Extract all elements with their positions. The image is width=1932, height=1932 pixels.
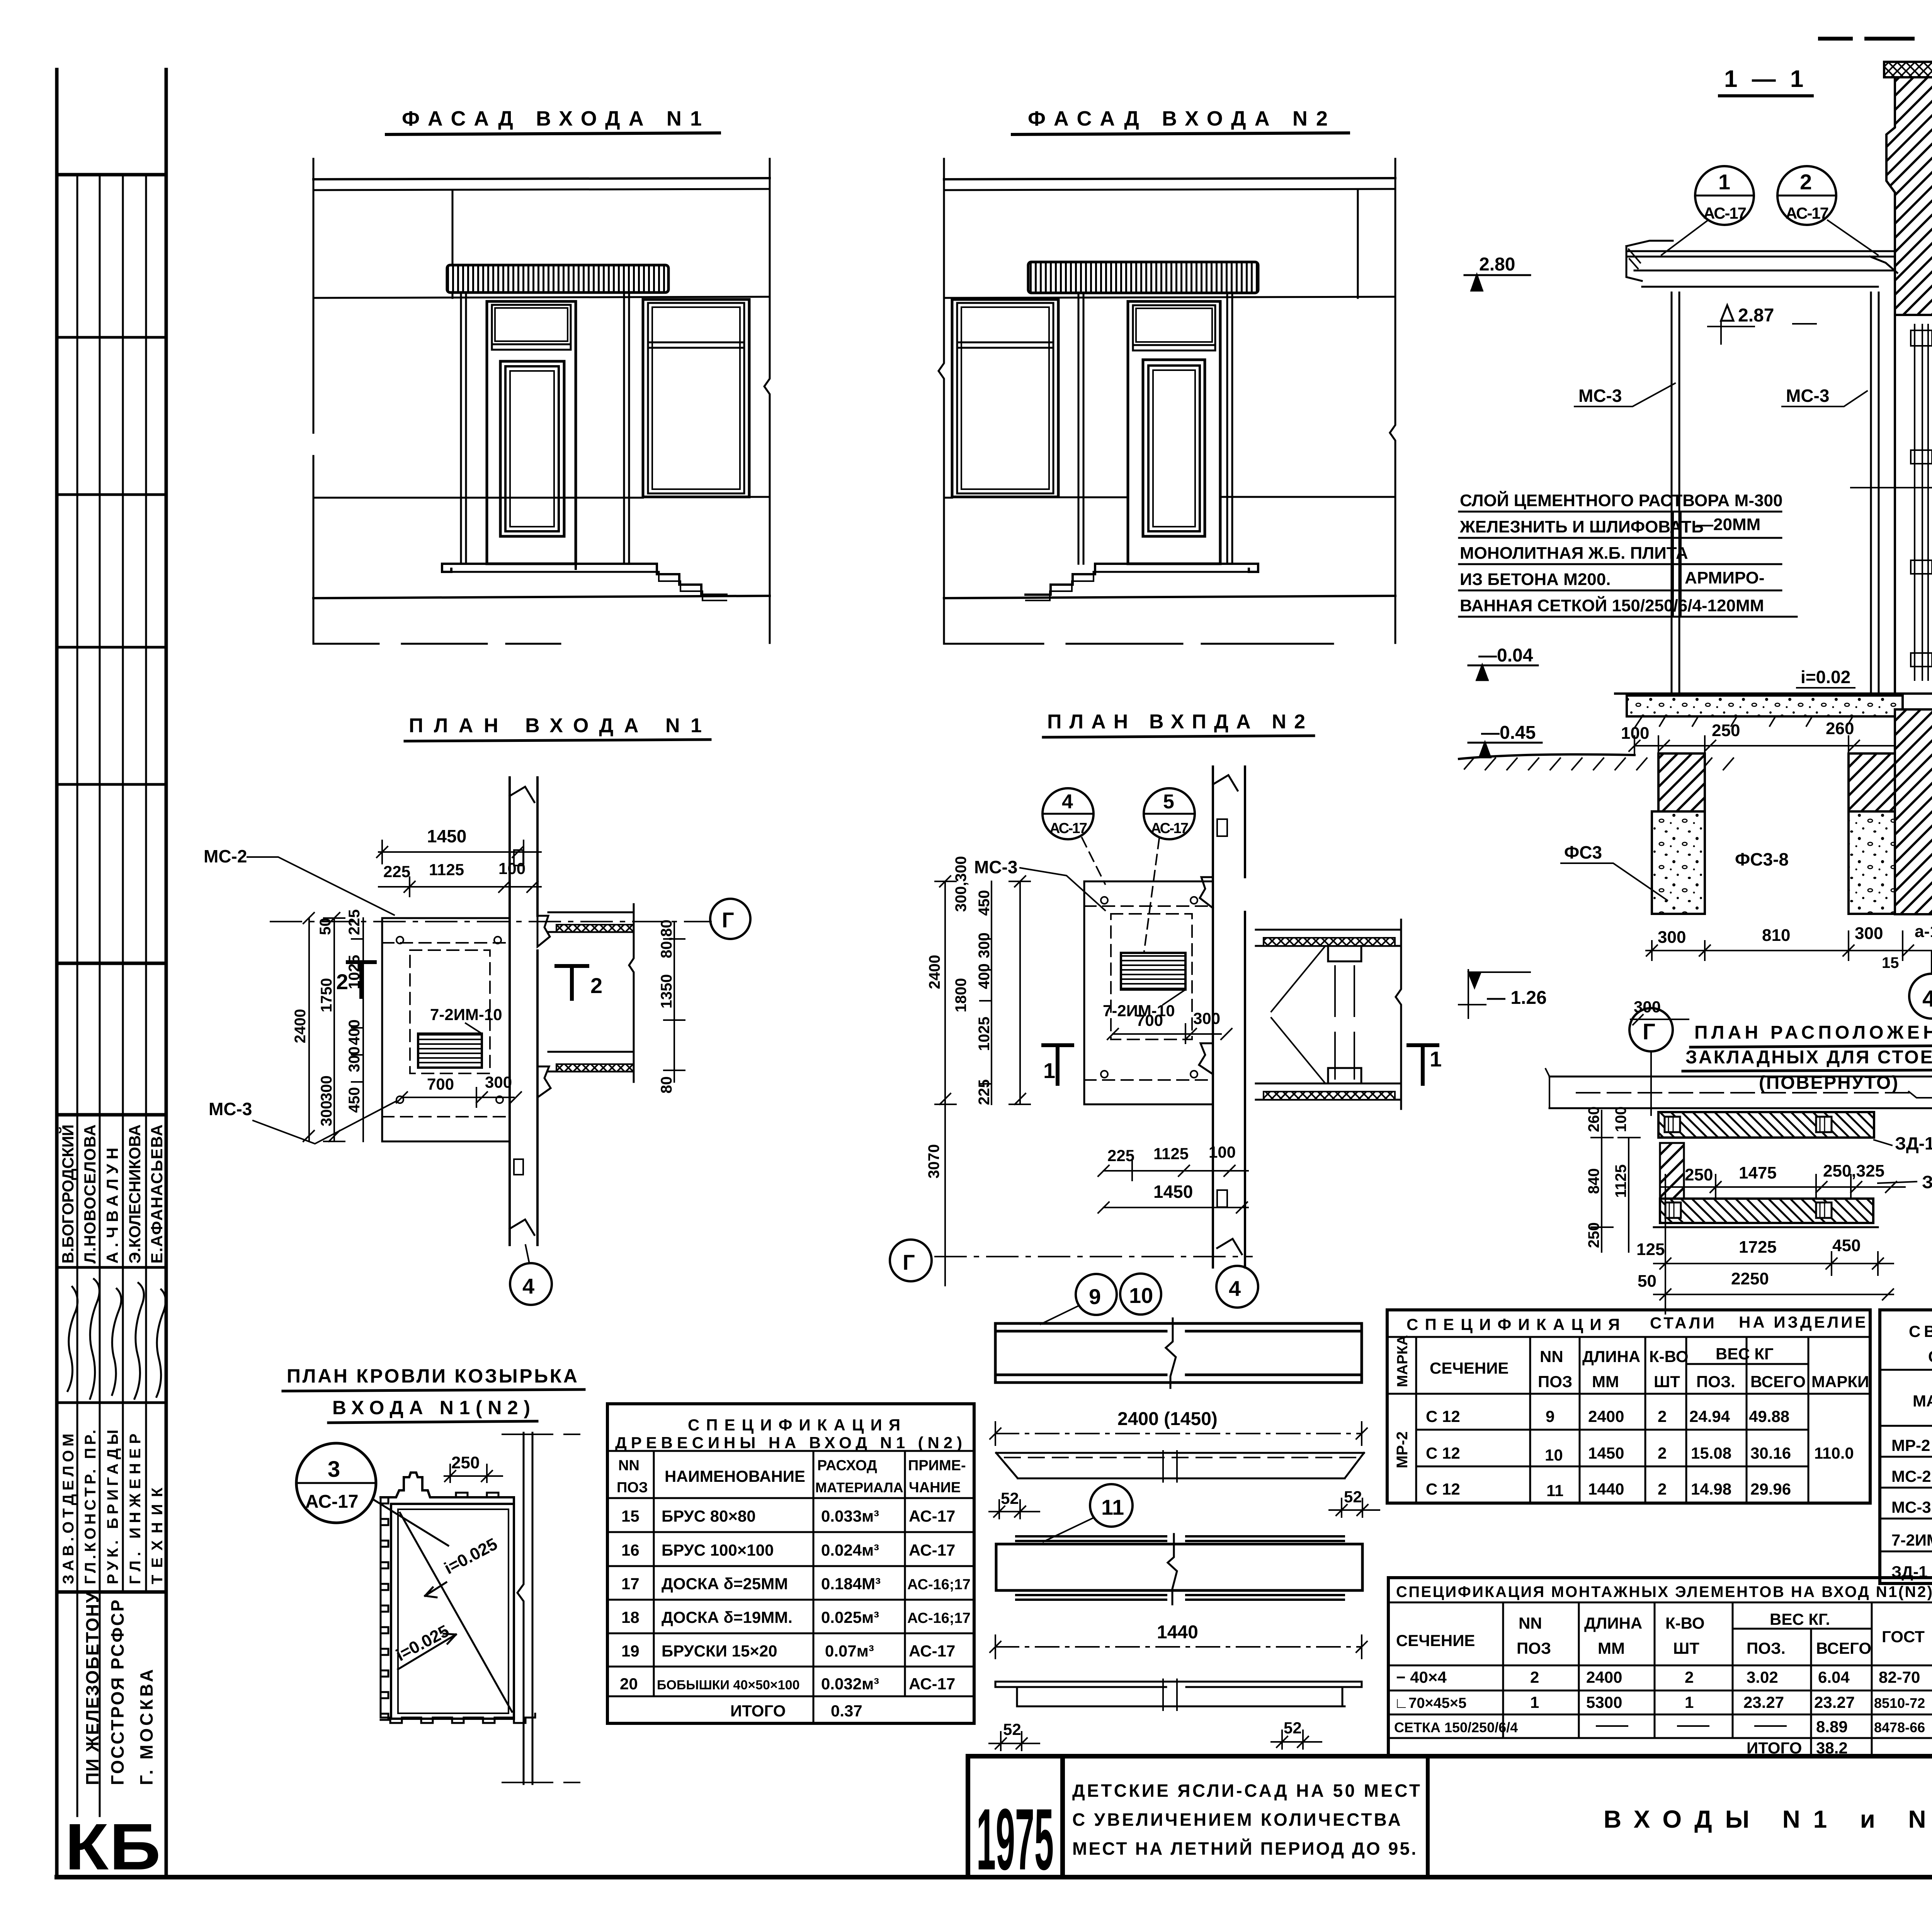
svg-text:0.184М³: 0.184М³ (821, 1575, 881, 1593)
section 1-1 foundation block left (stippled) (1652, 811, 1705, 914)
svg-text:ПИ ЖЕЛЕЗОБЕТОНУ: ПИ ЖЕЛЕЗОБЕТОНУ (82, 1592, 102, 1785)
plan N2 left dimension chains (1009, 876, 1030, 1104)
svg-text:2: 2 (1658, 1444, 1667, 1462)
svg-text:АС-17: АС-17 (1703, 204, 1747, 222)
plan N1 room walls right (548, 912, 634, 932)
svg-text:2400 (1450): 2400 (1450) (1117, 1409, 1218, 1429)
facade N1 transom window (492, 305, 571, 344)
beam item circle 11 (1090, 1484, 1133, 1527)
facade N1 steps (657, 564, 726, 595)
fascia plank (trapezoid) (996, 1453, 1364, 1478)
svg-text:9: 9 (1089, 1284, 1101, 1309)
svg-text:МС-3: МС-3 (1891, 1498, 1931, 1516)
section circle 4 (1909, 974, 1932, 1019)
summary steel spec table (1880, 1310, 1932, 1583)
plan N2 embedded panel 7-2IM-10 (1121, 953, 1185, 990)
svg-text:10: 10 (1545, 1446, 1563, 1464)
svg-text:1: 1 (1430, 1047, 1442, 1071)
svg-text:СВОДНАЯ СПЕЦИФИКАЦИЯ: СВОДНАЯ СПЕЦИФИКАЦИЯ (1909, 1322, 1932, 1340)
svg-text:БОБЫШКИ 40×50×100: БОБЫШКИ 40×50×100 (657, 1678, 799, 1692)
title block top line (968, 1754, 1932, 1759)
svg-text:4: 4 (522, 1274, 534, 1298)
svg-text:2: 2 (1685, 1668, 1694, 1686)
svg-text:ПЛАН РАСПОЛОЖЕНИЯ: ПЛАН РАСПОЛОЖЕНИЯ (1694, 1022, 1932, 1043)
svg-text:ЗАКЛАДНЫХ ДЛЯ СТОЕК ВХОДА N1: ЗАКЛАДНЫХ ДЛЯ СТОЕК ВХОДА N1 (1685, 1047, 1932, 1068)
svg-text:МР-2: МР-2 (1394, 1431, 1411, 1468)
plan N1 right vertical dims (664, 922, 685, 1082)
svg-text:ЧАНИЕ: ЧАНИЕ (909, 1480, 961, 1496)
svg-text:3.02: 3.02 (1747, 1668, 1778, 1686)
svg-text:700: 700 (1136, 1011, 1163, 1029)
axis circle Г (710, 899, 750, 939)
detail circle 3/AC-17 (296, 1443, 376, 1523)
svg-text:—0.45: —0.45 (1481, 723, 1536, 743)
svg-text:100: 100 (498, 859, 526, 878)
bottom plank elevation (995, 1682, 1362, 1706)
svg-text:МАРКА: МАРКА (1913, 1392, 1932, 1410)
svg-text:СЕЧЕНИЕ: СЕЧЕНИЕ (1396, 1631, 1475, 1650)
svg-text:8510-72: 8510-72 (1874, 1695, 1925, 1711)
svg-text:4: 4 (1922, 986, 1932, 1012)
svg-text:АС-17: АС-17 (1786, 204, 1829, 222)
svg-text:РУК. БРИГАДЫ: РУК. БРИГАДЫ (104, 1430, 121, 1584)
svg-text:ДЕТСКИЕ ЯСЛИ-САД НА 50 МЕСТ: ДЕТСКИЕ ЯСЛИ-САД НА 50 МЕСТ (1072, 1781, 1420, 1801)
svg-text:1 — 1: 1 — 1 (1724, 66, 1807, 92)
svg-text:—20ММ: —20ММ (1696, 515, 1760, 534)
svg-text:ВАННАЯ СЕТКОЙ 150/250/6/4-120М: ВАННАЯ СЕТКОЙ 150/250/6/4-120ММ (1460, 595, 1764, 615)
facade N2 lower wall line (944, 497, 1395, 498)
section 1-1 canopy post left (1672, 293, 1679, 696)
svg-text:8.89: 8.89 (1816, 1718, 1848, 1736)
svg-text:2: 2 (1658, 1407, 1667, 1425)
svg-text:1125: 1125 (1612, 1164, 1629, 1198)
svg-text:ВСЕГО: ВСЕГО (1750, 1372, 1806, 1391)
svg-text:80,80: 80,80 (658, 920, 675, 958)
svg-text:49.88: 49.88 (1749, 1407, 1789, 1425)
plan N2 wall jogs (1199, 877, 1213, 1074)
svg-text:250: 250 (451, 1453, 480, 1472)
svg-text:—0.04: —0.04 (1478, 645, 1533, 666)
svg-text:ДОСКА δ=19ММ.: ДОСКА δ=19ММ. (662, 1608, 793, 1626)
svg-text:АС-17: АС-17 (305, 1492, 359, 1512)
svg-text:30.16: 30.16 (1750, 1444, 1791, 1462)
facade N2 door leaf (1143, 360, 1205, 536)
facade N1 canopy (corrugated) (447, 265, 668, 293)
svg-text:100: 100 (1209, 1143, 1236, 1161)
svg-text:400: 400 (976, 963, 993, 989)
roof plan diagonal with slope labels (400, 1513, 512, 1712)
detail circle 2/AC-17 (1777, 166, 1836, 225)
svg-text:ГОСТ: ГОСТ (1882, 1628, 1925, 1646)
svg-text:260: 260 (1826, 719, 1854, 738)
svg-text:0.033м³: 0.033м³ (821, 1507, 879, 1525)
svg-text:АС-17: АС-17 (909, 1541, 955, 1559)
year box 1975 (968, 1756, 1063, 1877)
svg-text:1: 1 (1685, 1693, 1694, 1711)
svg-text:1440: 1440 (1588, 1480, 1624, 1498)
facade N2 door mullion (1133, 345, 1215, 350)
svg-text:1350: 1350 (658, 974, 675, 1009)
svg-text:300: 300 (318, 1075, 335, 1101)
section mark 2 right (556, 966, 587, 999)
section 1-1 foundation pier right (hatched) (1849, 753, 1903, 811)
svg-text:300: 300 (1193, 1009, 1220, 1027)
svg-text:700: 700 (427, 1075, 454, 1093)
svg-text:2250: 2250 (1731, 1269, 1769, 1288)
svg-text:ПОЗ.: ПОЗ. (1696, 1372, 1735, 1391)
svg-text:БРУС 80×80: БРУС 80×80 (662, 1507, 756, 1525)
svg-text:СЕТКА 150/250/6/4: СЕТКА 150/250/6/4 (1394, 1719, 1518, 1735)
svg-text:ЗД-1: ЗД-1 (1895, 1133, 1932, 1153)
facade N1 door frame (487, 301, 576, 564)
svg-text:СПЕЦИФИКАЦИЯ: СПЕЦИФИКАЦИЯ (688, 1416, 904, 1434)
svg-text:С 12: С 12 (1426, 1480, 1460, 1498)
svg-text:300: 300 (1658, 928, 1686, 947)
project description box (1426, 1756, 1430, 1877)
facade N1 wall joint (452, 190, 454, 298)
facade N2 lower datum line (944, 643, 1333, 645)
embedded bar left vertical (hatched) (1660, 1143, 1684, 1199)
svg-text:300,300: 300,300 (952, 856, 969, 912)
section 1-1 foundation pier left (hatched) (1658, 753, 1705, 811)
svg-text:ФС3: ФС3 (1564, 842, 1602, 862)
cement layer note text (1459, 490, 1782, 615)
svg-text:4: 4 (1062, 791, 1073, 813)
svg-text:20: 20 (620, 1675, 638, 1693)
svg-text:ШТ: ШТ (1654, 1372, 1680, 1391)
facade N1 lower wall line (313, 497, 770, 498)
section 1-1 wall column above canopy (hatched) (1886, 77, 1932, 315)
svg-text:19: 19 (621, 1642, 639, 1660)
svg-text:НА ИЗДЕЛИЕ: НА ИЗДЕЛИЕ (1739, 1313, 1868, 1331)
facade N2 left boundary (939, 159, 944, 643)
svg-text:ПЛАН КРОВЛИ КОЗЫРЬКА: ПЛАН КРОВЛИ КОЗЫРЬКА (287, 1365, 580, 1387)
steel spec table (per item) (1387, 1310, 1870, 1503)
svg-text:Г: Г (903, 1250, 915, 1274)
svg-text:50: 50 (317, 918, 334, 935)
facade N1 window mullion (648, 342, 744, 348)
facade N2 right boundary (1390, 159, 1395, 643)
svg-text:СПЕЦИФИКАЦИЯ МОНТАЖНЫХ ЭЛЕМЕНТ: СПЕЦИФИКАЦИЯ МОНТАЖНЫХ ЭЛЕМЕНТОВ НА ВХОД… (1396, 1583, 1932, 1600)
svg-text:50: 50 (1638, 1272, 1656, 1291)
plan N1 axis line to Г (270, 921, 711, 922)
beam C12 elevation (pos 9/10) (995, 1323, 1362, 1383)
svg-text:52: 52 (1284, 1719, 1302, 1737)
plan N2 room walls right (1256, 930, 1401, 946)
svg-text:ПОЗ.: ПОЗ. (1747, 1639, 1786, 1657)
detail circle 5/AC-17 (1144, 788, 1195, 839)
facade N1 canopy posts (461, 293, 629, 564)
svg-text:МАТЕРИАЛА: МАТЕРИАЛА (815, 1480, 903, 1495)
roof plan scalloped slab (381, 1497, 388, 1720)
svg-text:29.96: 29.96 (1750, 1480, 1791, 1498)
svg-text:К-ВО: К-ВО (1649, 1347, 1689, 1366)
svg-text:РАСХОД: РАСХОД (817, 1458, 877, 1474)
svg-text:ВЕС КГ: ВЕС КГ (1716, 1345, 1774, 1363)
plan N2 bolts (1101, 897, 1108, 904)
svg-text:250: 250 (1712, 721, 1740, 740)
svg-text:— 1.26: — 1.26 (1487, 988, 1547, 1008)
svg-text:NN: NN (1519, 1614, 1542, 1632)
svg-text:0.024м³: 0.024м³ (821, 1541, 879, 1559)
svg-text:ВХОДЫ N1 и N2: ВХОДЫ N1 и N2 (1604, 1805, 1932, 1833)
svg-text:НАИМЕНОВАНИЕ: НАИМЕНОВАНИЕ (665, 1467, 805, 1485)
svg-text:250: 250 (1585, 1222, 1602, 1248)
facade N1 ground line (313, 596, 770, 598)
section 1-1 canopy post right (1871, 293, 1879, 696)
svg-text:300: 300 (976, 932, 993, 958)
svg-text:7-2ИМ-10: 7-2ИМ-10 (430, 1005, 502, 1024)
svg-text:Г: Г (722, 908, 734, 932)
plan N2 canopy outline (1084, 881, 1213, 1104)
roof plan wall axis right (517, 1433, 532, 1784)
svg-text:АС-17: АС-17 (1049, 820, 1087, 837)
ground line left with hatch (1459, 754, 1634, 759)
facade N2 canopy posts (1078, 293, 1232, 564)
facade N2 window mullion (957, 342, 1053, 348)
svg-text:2: 2 (1658, 1480, 1667, 1498)
svg-text:6.04: 6.04 (1818, 1668, 1850, 1686)
svg-text:МЕСТ НА ЛЕТНИЙ ПЕРИОД ДО 95.: МЕСТ НА ЛЕТНИЙ ПЕРИОД ДО 95. (1072, 1838, 1416, 1859)
svg-text:АС-17: АС-17 (1151, 820, 1189, 837)
section 1-1 mid break line (1851, 478, 1932, 494)
svg-text:1: 1 (1043, 1058, 1055, 1083)
svg-text:1725: 1725 (1739, 1238, 1777, 1257)
svg-text:10: 10 (1129, 1283, 1153, 1308)
plan N2 axis line to Г (935, 1256, 1252, 1257)
axis circle Г (1629, 1008, 1673, 1051)
svg-text:ПОЗ: ПОЗ (617, 1480, 648, 1496)
svg-text:1125: 1125 (1153, 1145, 1189, 1163)
svg-text:52: 52 (1344, 1488, 1362, 1506)
svg-text:1440: 1440 (1157, 1622, 1198, 1643)
beam item circles 9 and 10 (1076, 1274, 1117, 1315)
svg-text:ММ: ММ (1598, 1639, 1625, 1657)
svg-text:МС-2: МС-2 (1891, 1467, 1931, 1485)
svg-text:СТАЛИ НА ВХОД N1 (N2): СТАЛИ НА ВХОД N1 (N2) (1928, 1347, 1932, 1366)
svg-text:ММ: ММ (1592, 1372, 1619, 1391)
svg-text:125: 125 (1636, 1240, 1665, 1259)
svg-text:1125: 1125 (429, 861, 464, 879)
svg-text:17: 17 (621, 1575, 639, 1593)
svg-text:1450: 1450 (427, 826, 466, 846)
svg-text:ВЕС КГ.: ВЕС КГ. (1770, 1610, 1830, 1628)
signatures column (squiggles) (68, 1279, 166, 1399)
svg-text:В.БОГОРОДСКИЙ: В.БОГОРОДСКИЙ (58, 1124, 77, 1264)
embedded bar ZD-1 top (hatched) (1658, 1112, 1874, 1138)
facade N2 parapet lines (944, 178, 1395, 179)
svg-text:4: 4 (1229, 1276, 1241, 1301)
facade N1 right boundary (764, 159, 770, 643)
svg-text:БРУС 100×100: БРУС 100×100 (662, 1541, 774, 1559)
svg-text:2: 2 (1530, 1668, 1539, 1686)
svg-text:СЕЧЕНИЕ: СЕЧЕНИЕ (1430, 1359, 1509, 1377)
svg-text:С 12: С 12 (1426, 1444, 1460, 1462)
svg-text:МС-3: МС-3 (1786, 386, 1829, 406)
svg-text:ВХОДА N1(N2): ВХОДА N1(N2) (332, 1397, 533, 1418)
svg-text:ФС3-8: ФС3-8 (1735, 849, 1789, 869)
svg-text:ШТ: ШТ (1673, 1639, 1699, 1657)
svg-text:ПРИМЕ-: ПРИМЕ- (908, 1458, 966, 1474)
svg-text:АС-17: АС-17 (909, 1642, 955, 1660)
svg-text:300: 300 (1855, 924, 1883, 943)
svg-text:ГОССТРОЯ РСФСР: ГОССТРОЯ РСФСР (107, 1600, 128, 1785)
svg-text:2400: 2400 (1586, 1668, 1622, 1686)
svg-text:1025: 1025 (976, 1017, 993, 1051)
svg-text:15: 15 (1882, 954, 1899, 971)
beam pos 11 elevation (1016, 1536, 1344, 1541)
svg-text:810: 810 (1762, 926, 1790, 945)
svg-text:ИТОГО: ИТОГО (730, 1702, 786, 1720)
svg-text:23.27: 23.27 (1814, 1693, 1855, 1711)
facade N1 wall line under canopy (313, 297, 770, 298)
svg-text:1: 1 (1530, 1693, 1539, 1711)
level mark -1.26 (1468, 972, 1481, 988)
svg-text:1450: 1450 (1588, 1444, 1624, 1462)
svg-text:——: —— (1677, 1716, 1709, 1734)
svg-text:450: 450 (346, 1087, 363, 1113)
svg-text:80: 80 (658, 1077, 675, 1094)
facade N2 entrance platform (1095, 564, 1258, 572)
plan N1 bottom circle 4 (510, 1263, 552, 1305)
left margin inner verticals (77, 175, 78, 1816)
svg-text:250,325: 250,325 (1823, 1162, 1884, 1180)
svg-text:0.07м³: 0.07м³ (825, 1642, 874, 1660)
svg-text:МС-3: МС-3 (974, 857, 1017, 877)
svg-text:1475: 1475 (1739, 1163, 1777, 1182)
facade N2 canopy (corrugated) (1028, 262, 1258, 293)
facade N2 transom window (1133, 305, 1215, 345)
svg-text:450: 450 (1832, 1236, 1861, 1255)
svg-text:NN: NN (1540, 1347, 1563, 1366)
svg-text:1750: 1750 (318, 978, 335, 1012)
facade N1 lower datum line (313, 643, 560, 645)
svg-text:МС-3: МС-3 (1578, 386, 1622, 406)
plan N1 wall (vertical, broken) (510, 777, 537, 1245)
svg-text:82-70: 82-70 (1879, 1668, 1920, 1686)
sheet bottom border line (57, 1875, 1932, 1879)
detail circle 4/AC-17 (1043, 788, 1094, 839)
section 1-1 foundation block right (stippled) (1849, 811, 1895, 914)
section 1-1 porch slab (stippled) (1615, 692, 1932, 695)
embedded bar ZD-1 bottom (hatched) (1660, 1199, 1873, 1223)
svg-text:0.37: 0.37 (831, 1702, 862, 1720)
plan N1 wall jogs (537, 916, 551, 1097)
svg-text:250: 250 (1685, 1165, 1713, 1184)
svg-text:0.025м³: 0.025м³ (821, 1608, 879, 1626)
svg-text:МР-2: МР-2 (1891, 1436, 1930, 1454)
svg-text:ЗАВ.ОТДЕЛОМ: ЗАВ.ОТДЕЛОМ (60, 1434, 77, 1584)
svg-text:ПОЗ: ПОЗ (1538, 1372, 1572, 1391)
svg-text:300: 300 (346, 1046, 363, 1072)
svg-text:МС-2: МС-2 (204, 846, 247, 866)
svg-text:− 40×4: − 40×4 (1396, 1668, 1447, 1686)
svg-text:ДОСКА δ=25ММ: ДОСКА δ=25ММ (662, 1575, 788, 1593)
svg-text:2: 2 (590, 973, 602, 998)
svg-text:2.87: 2.87 (1738, 305, 1774, 326)
svg-text:2.80: 2.80 (1479, 254, 1515, 275)
svg-text:МАРКИ: МАРКИ (1811, 1372, 1869, 1391)
plan N1 embedded panel 7-2IM-10 (418, 1034, 482, 1068)
svg-text:АС-17: АС-17 (909, 1675, 955, 1693)
plan N2 wall (vertical, broken) (1213, 767, 1245, 1267)
svg-text:3070: 3070 (925, 1144, 942, 1179)
svg-text:24.94: 24.94 (1689, 1407, 1730, 1425)
facade N2 wall line under canopy (944, 297, 1395, 298)
svg-text:15.08: 15.08 (1691, 1444, 1731, 1462)
embedded plan left vertical dims (1591, 1111, 1640, 1252)
facade N2 door frame (1128, 301, 1220, 564)
svg-text:АС-16;17: АС-16;17 (907, 1577, 971, 1593)
svg-text:300: 300 (485, 1073, 512, 1091)
svg-text:23.27: 23.27 (1743, 1693, 1784, 1711)
svg-text:2400: 2400 (292, 1009, 309, 1043)
svg-text:Г: Г (1643, 1019, 1655, 1044)
axis circle Г plan N2 (890, 1240, 932, 1281)
svg-text:АС-17: АС-17 (909, 1507, 955, 1525)
svg-text:ЗД-1: ЗД-1 (1922, 1172, 1932, 1192)
svg-text:ЖЕЛЕЗНИТЬ И ШЛИФОВАТЬ: ЖЕЛЕЗНИТЬ И ШЛИФОВАТЬ (1459, 517, 1704, 536)
facade N1 door leaf (500, 361, 564, 536)
svg-text:11: 11 (1101, 1495, 1124, 1519)
svg-text:1450: 1450 (1153, 1182, 1193, 1202)
svg-text:ВСЕГО: ВСЕГО (1816, 1639, 1871, 1657)
svg-text:840: 840 (1585, 1168, 1602, 1194)
svg-text:БРУСКИ 15×20: БРУСКИ 15×20 (662, 1642, 777, 1660)
facade N1 left boundary (313, 159, 315, 643)
facade N1 parapet lines (313, 178, 770, 179)
svg-text:——: —— (1754, 1716, 1787, 1734)
svg-text:ДЛИНА: ДЛИНА (1584, 1614, 1642, 1632)
svg-text:2: 2 (1800, 170, 1812, 194)
level mark 2.87 (1721, 305, 1733, 321)
section 1-1 canopy slab (1626, 251, 1895, 287)
svg-text:15: 15 (621, 1507, 639, 1525)
svg-text:5: 5 (1163, 791, 1174, 813)
section mark 1 right (1408, 1045, 1437, 1084)
svg-text:14.98: 14.98 (1691, 1480, 1731, 1498)
section 1-1 wall below (with window frame) (1895, 315, 1932, 696)
svg-text:NN: NN (618, 1458, 639, 1474)
svg-text:2400: 2400 (1588, 1407, 1624, 1425)
mounting elements spec table (1388, 1578, 1932, 1756)
svg-text:ДЛИНА: ДЛИНА (1582, 1347, 1640, 1366)
facade N2 ground line (944, 596, 1395, 598)
facade N2 wall joint (1357, 190, 1359, 298)
svg-text:∟70×45×5: ∟70×45×5 (1394, 1695, 1466, 1711)
svg-text:АС-16;17: АС-16;17 (907, 1610, 971, 1626)
svg-text:МОНОЛИТНАЯ Ж.Б. ПЛИТА: МОНОЛИТНАЯ Ж.Б. ПЛИТА (1460, 544, 1688, 563)
svg-text:52: 52 (1003, 1720, 1021, 1738)
svg-text:1800: 1800 (952, 978, 969, 1012)
svg-text:СЛОЙ ЦЕМЕНТНОГО РАСТВОРА М-300: СЛОЙ ЦЕМЕНТНОГО РАСТВОРА М-300 (1460, 490, 1782, 510)
svg-text:Л.НОВОСЕЛОВА: Л.НОВОСЕЛОВА (81, 1124, 99, 1264)
svg-text:225: 225 (383, 862, 410, 881)
left margin stamp column: outer verticals (55, 70, 59, 1877)
svg-text:2: 2 (336, 969, 348, 994)
svg-text:260: 260 (1585, 1106, 1602, 1132)
section 1-1 roof edge beam (1884, 62, 1932, 77)
section mark 1 left (1043, 1045, 1072, 1084)
facade N1 door mullion (492, 344, 571, 350)
svg-text:а-150: а-150 (1915, 922, 1932, 941)
svg-text:225: 225 (976, 1079, 993, 1105)
institute name (rotated) (82, 1592, 156, 1785)
svg-text:МС-3: МС-3 (209, 1099, 252, 1119)
plan N1 left dimension chains (324, 913, 345, 1141)
svg-text:400: 400 (346, 1019, 363, 1045)
svg-text:2400: 2400 (926, 955, 943, 989)
